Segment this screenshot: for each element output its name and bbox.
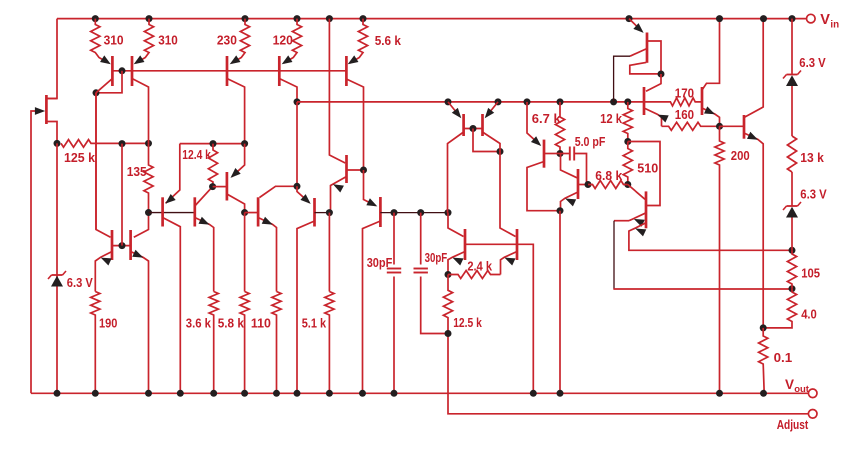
label D1 6.3V	[67, 275, 93, 290]
label 160	[675, 107, 694, 122]
svg-text:V: V	[820, 12, 830, 28]
node 230 top	[242, 15, 249, 22]
arrow Q15 emitter2	[634, 225, 647, 236]
svg-text:120: 120	[273, 33, 293, 48]
transistor Q15 base feed	[628, 185, 645, 200]
arrow 5.6k emitter	[346, 55, 359, 67]
wire C3 right lead	[574, 154, 588, 185]
node 12k bottom	[624, 138, 631, 145]
node gain emitter junction	[557, 207, 564, 214]
transistor Q26 base	[315, 212, 330, 214]
resistor R 190	[91, 292, 100, 394]
capacitor C2 30pF	[414, 269, 428, 273]
svg-text:135: 135	[127, 164, 147, 179]
node dark drop top	[610, 98, 617, 105]
arrow Q25 emitter	[262, 217, 275, 228]
resistor R 5.6k	[350, 19, 368, 63]
arrow Q18 emitter	[704, 106, 717, 117]
wire zener column	[56, 143, 58, 393]
transistor Q8 bar	[379, 197, 382, 227]
node Q13p emitter rail	[524, 98, 531, 105]
node zener bottom rail	[54, 390, 61, 397]
node right col rail	[789, 15, 796, 22]
label 125k	[64, 150, 96, 165]
transistor Q21 collector	[134, 213, 149, 238]
label 310a	[104, 33, 124, 48]
node 12k top	[624, 98, 631, 105]
arrow 310b emitter	[132, 55, 145, 67]
transistor Q11n bar	[464, 229, 467, 260]
label 2.4k	[467, 259, 492, 274]
svg-text:170: 170	[675, 86, 694, 101]
arrow Q10m emitter	[482, 108, 495, 121]
wire emitter1 sense to node	[613, 288, 792, 290]
transistor Q8 collector	[363, 221, 381, 393]
node 120 top	[294, 15, 301, 22]
transistor Q13p base	[544, 153, 560, 155]
wire x329 drop	[329, 19, 345, 163]
label 105	[801, 265, 820, 280]
node Q26 emitter feed	[294, 183, 301, 190]
node mirror bases	[470, 125, 477, 132]
svg-text:6.3 V: 6.3 V	[799, 55, 826, 70]
resistor R 6.7k	[555, 102, 564, 154]
node sense node B	[789, 285, 796, 292]
node sense node A	[789, 247, 796, 254]
resistor R 160	[662, 122, 720, 130]
node Q8 collector rail	[359, 390, 366, 397]
node 5.8k rail	[241, 390, 248, 397]
svg-text:6.3 V: 6.3 V	[800, 186, 827, 201]
arrow Q16 emitter	[633, 23, 646, 36]
arrow Q20 emitter	[99, 254, 112, 265]
node 110 rail	[273, 390, 280, 397]
svg-text:105: 105	[801, 265, 820, 280]
wire left gate column	[31, 111, 40, 393]
transistor Q14n collector	[561, 154, 578, 178]
capacitor C1 30pF	[387, 269, 401, 273]
resistor R 12k	[623, 102, 632, 142]
transistor Q12n emitter	[501, 252, 518, 275]
arrow Q13p emitter	[531, 136, 544, 149]
wire cap1 bottom lead	[393, 277, 395, 394]
wire bandgap base up	[121, 144, 123, 246]
label 6.8k	[595, 168, 622, 183]
node x329 rail	[326, 15, 333, 22]
arrow Q11n emitter	[451, 254, 464, 265]
node seg1 left	[145, 209, 152, 216]
transistor Q19 bar	[743, 115, 746, 139]
arrow Q15 emitter1	[632, 215, 645, 226]
transistor Q25 bar	[257, 197, 260, 226]
wire Adjust line	[448, 334, 808, 414]
node Q16 collectors	[658, 71, 665, 78]
svg-text:30pF: 30pF	[367, 255, 393, 270]
node Q9 collector top	[445, 209, 452, 216]
resistor R 135	[144, 143, 153, 212]
wire Q12n collector	[500, 152, 516, 237]
wire emitter1 sense drop	[613, 221, 615, 289]
label 200	[731, 148, 750, 163]
node base bus	[119, 67, 126, 74]
transistor Q14n bar	[577, 169, 580, 199]
transistor Q19 emitter	[744, 133, 763, 328]
svg-text:13 k: 13 k	[800, 150, 824, 165]
resistor R 110	[272, 292, 281, 394]
svg-text:230: 230	[217, 33, 237, 48]
node 5.1k rail	[326, 390, 333, 397]
node 135 top	[145, 140, 152, 147]
svg-text:310: 310	[104, 33, 124, 48]
svg-text:6.8 k: 6.8 k	[595, 168, 622, 183]
transistor Q5 bar	[278, 56, 281, 86]
svg-text:6.3 V: 6.3 V	[67, 275, 93, 290]
resistor R 4.0	[763, 289, 796, 328]
svg-text:Adjust: Adjust	[777, 417, 809, 432]
node 12.4k top	[210, 140, 217, 147]
transistor Q11n emitter	[448, 252, 465, 275]
transistor Q3 bar	[131, 56, 134, 86]
label 5.1k	[302, 315, 327, 330]
node Q18 collector rail	[716, 15, 723, 22]
transistor Q24 emitter	[232, 144, 245, 177]
transistor Q10m emitter	[486, 102, 498, 117]
svg-text:510: 510	[637, 161, 658, 176]
arrow Q14n emitter	[564, 195, 577, 206]
transistor Q3 collector	[132, 79, 149, 144]
svg-text:310: 310	[158, 33, 178, 48]
label D2 6.3V	[799, 55, 826, 70]
node 190 rail	[92, 390, 99, 397]
transistor Q21 emitter	[131, 252, 149, 394]
svg-text:12.4 k: 12.4 k	[182, 147, 211, 162]
wire base bus y71	[112, 70, 346, 72]
transistor Q20 emitter	[95, 252, 112, 292]
transistor Q22 emitter	[166, 144, 180, 204]
transistor Q24 base	[213, 186, 227, 188]
svg-text:125 k: 125 k	[64, 150, 96, 165]
node 12.4k bottom	[209, 183, 216, 190]
label Adjust	[777, 417, 809, 432]
svg-text:6.7 k: 6.7 k	[532, 111, 562, 126]
node x560 rail	[557, 390, 564, 397]
resistor 125k	[61, 140, 122, 148]
wire cap1 top lead	[393, 213, 395, 265]
node 310b top	[146, 15, 153, 22]
label Vin	[820, 12, 839, 31]
node Q26 collector rail	[294, 390, 301, 397]
transistor Q20 collector	[96, 93, 111, 238]
wire emitter1 sense h	[614, 220, 629, 222]
svg-text:200: 200	[731, 148, 750, 163]
svg-text:12 k: 12 k	[600, 111, 623, 126]
transistor Q16 collector A	[647, 41, 661, 74]
node Q14n base	[585, 181, 592, 188]
arrow Q24 emitter	[228, 168, 241, 181]
transistor Q24 bar	[226, 172, 229, 201]
transistor Q16 collector B	[630, 62, 661, 74]
transistor Q9m collector	[448, 132, 464, 213]
label C1 30pF	[367, 255, 393, 270]
transistor Q21 bar	[129, 230, 132, 260]
node mirror tie	[497, 148, 504, 155]
transistor Q1 drain lead	[46, 98, 57, 100]
diode zener D2 6.3V	[783, 71, 801, 87]
node 3.6k rail	[210, 390, 217, 397]
resistor R 120	[284, 19, 302, 63]
node 5.6k top	[360, 15, 367, 22]
node cap1 top	[391, 209, 398, 216]
wire Q5 collector drop	[296, 102, 298, 186]
transistor Q14n emitter	[561, 192, 579, 211]
label 230	[217, 33, 237, 48]
node 0.1 rail	[760, 390, 767, 397]
svg-text:160: 160	[675, 107, 694, 122]
resistor R 510	[623, 142, 632, 185]
terminal Adjust	[808, 410, 817, 419]
svg-text:in: in	[830, 20, 839, 31]
transistor Q9m bar	[462, 114, 465, 136]
transistor Q17 bar	[643, 87, 646, 115]
transistor Q13p collector	[527, 162, 560, 211]
svg-text:2.4 k: 2.4 k	[467, 259, 492, 274]
transistor Q8 emitter feed	[364, 170, 376, 206]
resistor R 310a	[91, 19, 109, 63]
transistor Q17 emitter	[644, 108, 662, 126]
node base-line tap	[119, 140, 126, 147]
resistor R 13k	[787, 136, 796, 172]
wire zener2 down	[791, 218, 793, 251]
diode zener D1 6.3V	[48, 271, 66, 287]
wire 13k to zener2	[791, 172, 793, 206]
transistor Q1 source lead	[46, 122, 57, 144]
node cap1 rail	[391, 390, 398, 397]
wire C3 left lead	[560, 153, 570, 155]
transistor Q7 base	[347, 169, 364, 171]
node 6.7k bottom	[557, 150, 564, 157]
wire mirror base tie	[473, 129, 500, 152]
node 510 bottom	[624, 181, 631, 188]
wire zener1 to 13k	[791, 86, 793, 136]
node Q26 base	[326, 209, 333, 216]
transistor Q15 emitter2	[629, 223, 792, 251]
label 3.6k	[186, 315, 212, 330]
transistor Q25 collector	[260, 186, 298, 197]
wire 5.1k column	[328, 213, 330, 292]
label 6.7k	[532, 111, 562, 126]
transistor Q2 collector	[96, 79, 112, 93]
wire base rail seg1	[149, 212, 195, 214]
arrow Q17 emitter	[656, 111, 669, 122]
transistor Q22 collector	[163, 218, 181, 394]
label 310b	[158, 33, 178, 48]
transistor Q25 emitter	[258, 218, 276, 292]
transistor Q19 base	[720, 125, 745, 127]
label 510	[637, 161, 658, 176]
transistor Q4 bar	[226, 56, 229, 86]
wire cap2 top lead	[420, 213, 422, 265]
wire Q16 base drop	[614, 56, 630, 102]
transistor Q23 bar	[193, 197, 196, 226]
node 2.4k left	[445, 271, 452, 278]
resistor R 230	[232, 19, 250, 63]
node 310a top	[92, 15, 99, 22]
resistor R 12.4k	[208, 144, 217, 187]
wire mirror bases	[464, 128, 483, 130]
transistor Q15 emitter1	[629, 213, 646, 221]
node 6.7k top	[557, 98, 564, 105]
label 5.6k	[375, 33, 402, 48]
node Q23p emitter top	[241, 140, 248, 147]
label 190	[99, 315, 117, 330]
svg-text:out: out	[794, 384, 810, 395]
transistor Q1 (JFET) bar	[45, 95, 48, 124]
transistor Q16 bar	[646, 33, 649, 63]
label 12k	[600, 111, 623, 126]
node JFET source junction	[54, 140, 61, 147]
wire Q17 collector feed	[646, 74, 661, 91]
arrow Q26 emitter	[300, 194, 313, 207]
label Vout	[785, 377, 810, 395]
arrow 120 emitter	[280, 55, 293, 67]
svg-text:5.8 k: 5.8 k	[218, 315, 245, 330]
wire bottom Vout rail	[31, 392, 808, 394]
node 200 rail	[716, 390, 723, 397]
transistor Q19 collector	[744, 19, 763, 118]
label 110	[251, 315, 271, 330]
arrow Q7 emitter	[331, 181, 344, 193]
svg-text:110: 110	[251, 315, 271, 330]
wire 125k to 135 node	[122, 142, 149, 144]
arrow 230 emitter	[228, 55, 241, 67]
resistor R 105	[787, 250, 796, 288]
transistor Q26 bar	[313, 198, 316, 227]
resistor R 3.6k	[209, 292, 218, 394]
wire npn pair base bus	[465, 244, 533, 393]
transistor Q1 gate arrow	[35, 107, 45, 115]
transistor Q13p emitter	[527, 102, 540, 145]
wire Q2 collector down	[95, 93, 97, 230]
wire right col upper	[791, 19, 793, 75]
label 0.1	[774, 350, 793, 365]
node cap2 top	[417, 209, 424, 216]
transistor Q18 emitter	[702, 108, 720, 126]
svg-text:4.0: 4.0	[801, 307, 817, 322]
arrow Q8 emitter	[366, 198, 379, 210]
arrow Q23 emitter	[199, 217, 212, 228]
svg-text:12.5 k: 12.5 k	[453, 315, 482, 330]
resistor R 12.5k	[443, 275, 452, 334]
transistor Q12n bar	[516, 229, 519, 260]
label 170	[675, 86, 694, 101]
label 4.0	[801, 307, 817, 322]
transistor Q4 collector	[227, 79, 245, 144]
transistor Q14n base	[578, 184, 588, 186]
transistor Q6 collector	[346, 79, 363, 170]
node collector tie	[93, 89, 100, 96]
node seg2 node	[241, 209, 248, 216]
arrow Q9m emitter	[452, 108, 465, 121]
resistor R 2.4k	[448, 271, 501, 279]
transistor Q5 collector	[279, 79, 297, 102]
node Q7 base	[360, 167, 367, 174]
node base bus rail	[530, 390, 537, 397]
terminal Vout	[808, 389, 817, 398]
transistor Q23 collector	[195, 187, 213, 206]
transistor Q22 bar	[161, 197, 164, 226]
svg-text:3.6 k: 3.6 k	[186, 315, 212, 330]
transistor Q16 emitter	[629, 19, 642, 32]
wire 5.8k column	[244, 213, 246, 292]
resistor R 6.8k	[588, 181, 628, 189]
arrow Q21 emitter	[132, 250, 145, 261]
node Q19 collector rail	[760, 15, 767, 22]
transistor Q26 collector	[297, 221, 315, 393]
capacitor C3 5.0pF	[570, 147, 574, 161]
wire cap2 bottom lead	[421, 277, 448, 334]
label 13k	[800, 150, 824, 165]
transistor Q20 bar	[111, 230, 114, 260]
label 12.5k	[453, 315, 482, 330]
transistor Q15 bar	[645, 191, 648, 228]
node 4.0 bottom	[760, 324, 767, 331]
terminal Vin	[807, 14, 816, 23]
transistor Q18 collector	[702, 19, 720, 90]
node Q22 collector rail	[177, 390, 184, 397]
arrow Q22 emitter	[163, 194, 176, 207]
node mirror right emitter	[495, 98, 502, 105]
wire x560 down	[559, 211, 561, 394]
resistor R 170	[644, 98, 702, 106]
svg-text:30pF: 30pF	[425, 250, 448, 265]
svg-text:190: 190	[99, 315, 117, 330]
arrow 310a emitter	[100, 55, 113, 67]
resistor R 5.1k	[325, 292, 334, 394]
transistor Q10m collector	[483, 132, 501, 152]
transistor Q9m emitter	[448, 102, 460, 117]
wire bias bus y102	[297, 101, 644, 103]
svg-text:5.0 pF: 5.0 pF	[575, 134, 606, 149]
diode zener D3 6.3V	[783, 202, 801, 218]
arrow Q19 emitter	[747, 132, 760, 143]
transistor Q24 collector	[227, 194, 245, 213]
wire Q8 base bus	[380, 212, 448, 214]
label D3 6.3V	[800, 186, 827, 201]
label C3 5.0pF	[575, 134, 606, 149]
resistor R 0.1	[759, 328, 768, 393]
resistor R 5.8k	[240, 292, 249, 394]
wire Q11n collector	[448, 213, 464, 237]
svg-text:5.6 k: 5.6 k	[375, 33, 402, 48]
label 12.4k	[182, 147, 211, 162]
node 12.5k bottom	[445, 330, 452, 337]
resistor R 200	[715, 126, 724, 393]
node 160 right	[716, 123, 723, 130]
transistor Q10m bar	[481, 114, 484, 136]
transistor Q6 bar	[345, 56, 348, 86]
node bandgap bases	[119, 242, 126, 249]
wire top supply rail	[57, 18, 806, 20]
transistor Q7 bar	[345, 155, 348, 183]
transistor Q13p bar	[543, 140, 546, 168]
transistor Q23 emitter	[195, 218, 214, 292]
wire Vin rail left corner drop (JFET drain)	[46, 19, 57, 99]
wire bandgap bases	[112, 245, 131, 247]
arrow Q12n emitter	[503, 254, 516, 265]
svg-text:V: V	[785, 377, 794, 392]
node Q21 emitter rail	[145, 390, 152, 397]
resistor R 310b	[136, 19, 154, 63]
